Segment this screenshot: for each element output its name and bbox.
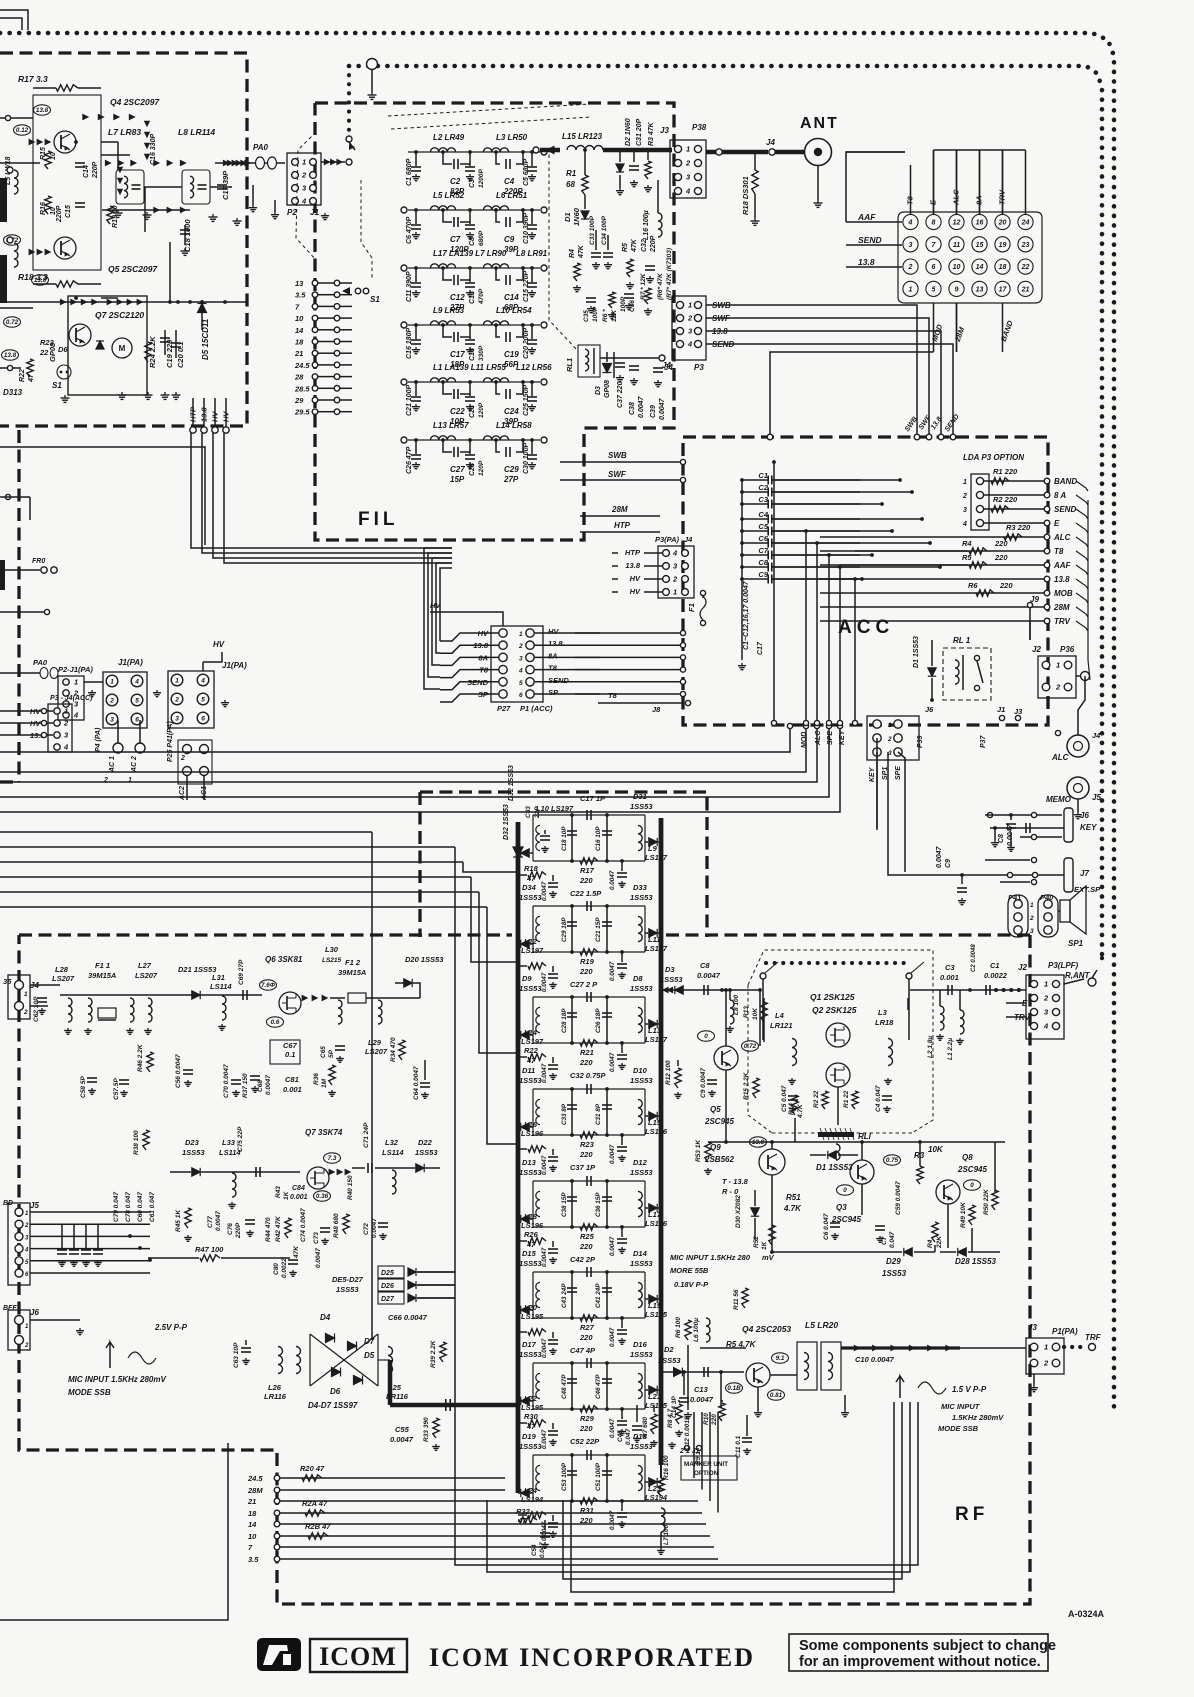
svg-text:C26 47P: C26 47P	[406, 446, 413, 474]
svg-text:C31 8P: C31 8P	[595, 1103, 602, 1125]
svg-text:LS207: LS207	[135, 971, 158, 980]
svg-text:0.1B: 0.1B	[727, 1385, 741, 1392]
svg-text:10K: 10K	[752, 1007, 759, 1020]
svg-text:R47 100: R47 100	[195, 1245, 224, 1254]
svg-text:C24: C24	[504, 407, 519, 416]
svg-text:C2 0.0048: C2 0.0048	[971, 944, 977, 972]
svg-text:47: 47	[526, 1422, 536, 1431]
svg-text:0.0047: 0.0047	[690, 1395, 714, 1404]
svg-text:Q8: Q8	[962, 1153, 973, 1162]
svg-text:1: 1	[64, 707, 68, 716]
svg-text:C8: C8	[758, 558, 768, 567]
svg-text:C58 5P: C58 5P	[80, 1076, 87, 1098]
svg-text:L27: L27	[138, 961, 152, 970]
svg-text:L10 LR54: L10 LR54	[496, 306, 532, 315]
svg-text:13.8: 13.8	[36, 107, 49, 114]
svg-text:22K: 22K	[936, 1235, 943, 1249]
svg-text:0.0047: 0.0047	[541, 1063, 548, 1083]
svg-text:SEND: SEND	[1054, 505, 1076, 514]
svg-text:1: 1	[673, 588, 677, 597]
svg-text:F1: F1	[687, 603, 696, 612]
svg-text:J5: J5	[1092, 793, 1101, 802]
svg-text:0.75: 0.75	[886, 1157, 899, 1164]
svg-text:C3: C3	[945, 963, 955, 972]
svg-text:1: 1	[302, 158, 306, 167]
svg-text:20: 20	[998, 220, 1007, 227]
svg-text:R1 220: R1 220	[993, 467, 1018, 476]
svg-text:D2 1N60: D2 1N60	[625, 118, 632, 146]
svg-text:2: 2	[24, 1223, 29, 1229]
svg-text:P3: P3	[694, 363, 704, 372]
svg-text:21: 21	[247, 1497, 256, 1506]
svg-text:L28: L28	[55, 965, 69, 974]
svg-text:C43 24P: C43 24P	[561, 1283, 568, 1308]
svg-text:E: E	[1054, 519, 1060, 528]
svg-text:D29: D29	[886, 1257, 901, 1266]
svg-text:P39: P39	[917, 735, 924, 748]
svg-text:1SS53: 1SS53	[519, 984, 542, 993]
svg-text:P38: P38	[692, 123, 707, 132]
svg-text:1: 1	[963, 479, 967, 486]
svg-text:0.0022: 0.0022	[984, 971, 1008, 980]
svg-text:L15 LR123: L15 LR123	[562, 132, 603, 141]
svg-text:Q4 2SC2053: Q4 2SC2053	[742, 1324, 791, 1334]
svg-text:D25: D25	[381, 1270, 394, 1277]
svg-text:C46 47P: C46 47P	[595, 1374, 602, 1399]
svg-text:4: 4	[518, 668, 523, 675]
svg-text:47: 47	[526, 1056, 536, 1065]
svg-text:2: 2	[518, 643, 523, 650]
svg-text:MODE SSB: MODE SSB	[938, 1424, 979, 1433]
svg-text:SEND: SEND	[858, 235, 882, 245]
svg-text:6: 6	[932, 264, 936, 271]
svg-text:R4: R4	[927, 1239, 934, 1248]
svg-text:L8 LR91: L8 LR91	[516, 249, 548, 258]
svg-text:2: 2	[887, 736, 892, 743]
svg-text:R1: R1	[566, 169, 577, 178]
svg-text:3: 3	[909, 242, 913, 249]
svg-text:LS197: LS197	[521, 946, 544, 955]
svg-text:3: 3	[686, 173, 691, 182]
svg-text:C27 2 P: C27 2 P	[570, 980, 598, 989]
svg-text:C37 1P: C37 1P	[570, 1163, 596, 1172]
svg-text:1: 1	[1044, 1343, 1048, 1352]
svg-text:D12: D12	[633, 1158, 648, 1167]
svg-text:AC 1: AC 1	[109, 756, 116, 773]
svg-text:LS207: LS207	[365, 1047, 388, 1056]
svg-text:R6 100: R6 100	[675, 1317, 682, 1338]
svg-text:C12: C12	[450, 293, 465, 302]
svg-text:3: 3	[64, 731, 69, 740]
svg-text:C6 470P: C6 470P	[406, 216, 413, 244]
svg-text:L12: L12	[524, 937, 538, 946]
svg-text:C18 10P: C18 10P	[561, 826, 568, 851]
svg-text:C1: C1	[758, 471, 768, 480]
svg-text:D1 1SS53: D1 1SS53	[816, 1163, 853, 1172]
svg-text:LS194: LS194	[521, 1495, 544, 1504]
svg-text:0.0047: 0.0047	[697, 971, 721, 980]
svg-text:D13: D13	[522, 1158, 537, 1167]
svg-text:C15: C15	[65, 205, 72, 218]
svg-text:R2A 47: R2A 47	[302, 1499, 328, 1508]
svg-text:4: 4	[687, 340, 693, 349]
svg-text:14: 14	[976, 264, 984, 271]
svg-text:MODE SSB: MODE SSB	[68, 1388, 111, 1397]
svg-text:0.0047: 0.0047	[215, 1211, 222, 1231]
svg-text:1SS53: 1SS53	[630, 984, 653, 993]
svg-text:GP08: GP08	[48, 342, 57, 362]
svg-text:(R6* 47K: (R6* 47K	[657, 272, 664, 300]
svg-text:C6 0.047: C6 0.047	[823, 1213, 830, 1240]
svg-text:L14: L14	[524, 1028, 538, 1037]
svg-text:R17 3.3: R17 3.3	[18, 74, 48, 84]
svg-text:7: 7	[248, 1543, 253, 1552]
svg-text:J5: J5	[30, 1201, 39, 1210]
svg-text:14: 14	[248, 1520, 257, 1529]
svg-text:220P: 220P	[650, 235, 657, 253]
svg-text:KEY: KEY	[1080, 823, 1097, 832]
svg-text:0.0047: 0.0047	[936, 845, 943, 868]
svg-text:D32 1SS53: D32 1SS53	[503, 804, 510, 840]
svg-text:220P: 220P	[235, 1222, 242, 1239]
svg-text:23: 23	[1021, 242, 1030, 249]
svg-text:C55: C55	[395, 1425, 410, 1434]
svg-text:D11: D11	[522, 1066, 535, 1075]
svg-text:L22: L22	[524, 1394, 538, 1403]
svg-text:LR116: LR116	[264, 1392, 287, 1401]
svg-text:R42 47K: R42 47K	[275, 1215, 282, 1242]
svg-text:4: 4	[134, 679, 139, 686]
svg-text:C39: C39	[650, 405, 657, 418]
svg-text:D313: D313	[3, 388, 23, 397]
svg-text:LS207: LS207	[52, 974, 75, 983]
svg-text:1K: 1K	[283, 1190, 290, 1200]
svg-text:D30 XZ082: D30 XZ082	[735, 1195, 742, 1228]
svg-text:330P: 330P	[478, 345, 485, 361]
svg-text:1: 1	[74, 678, 78, 687]
svg-text:P37: P37	[980, 734, 987, 748]
svg-text:D1: D1	[563, 212, 572, 222]
svg-text:D10: D10	[633, 1066, 648, 1075]
svg-text:LS196: LS196	[521, 1129, 544, 1138]
svg-text:J1(PA): J1(PA)	[118, 658, 143, 667]
svg-text:D8: D8	[633, 974, 643, 983]
svg-text:R19 10: R19 10	[112, 205, 119, 228]
svg-text:P1 (ACC): P1 (ACC)	[520, 704, 553, 713]
svg-text:1: 1	[1030, 902, 1034, 909]
svg-text:3: 3	[302, 184, 307, 193]
svg-text:Q6 3SK81: Q6 3SK81	[265, 955, 303, 964]
svg-text:L6 LR51: L6 LR51	[496, 191, 528, 200]
svg-text:A-0324A: A-0324A	[1068, 1609, 1105, 1619]
svg-text:C14: C14	[504, 293, 519, 302]
svg-text:RL1: RL1	[565, 358, 574, 372]
svg-text:C81: C81	[285, 1075, 299, 1084]
svg-text:LDA P3 OPTION: LDA P3 OPTION	[963, 453, 1024, 462]
svg-text:R1 22: R1 22	[843, 1090, 850, 1108]
svg-text:13.8: 13.8	[625, 561, 640, 570]
svg-text:C11 0.1: C11 0.1	[735, 1435, 742, 1458]
svg-text:0.0047: 0.0047	[638, 395, 645, 418]
svg-text:1SS53: 1SS53	[182, 1148, 205, 1157]
svg-text:T - 13.8: T - 13.8	[722, 1177, 749, 1186]
svg-text:0.0047: 0.0047	[609, 870, 616, 890]
svg-text:4: 4	[962, 521, 967, 528]
svg-text:L9 LR53: L9 LR53	[433, 306, 465, 315]
svg-text:C28 18P: C28 18P	[561, 1008, 568, 1033]
svg-text:5P: 5P	[328, 1049, 335, 1058]
svg-text:AC 2: AC 2	[131, 756, 138, 773]
svg-text:Q3: Q3	[836, 1203, 847, 1212]
svg-text:R12 100: R12 100	[665, 1060, 672, 1085]
svg-text:J1: J1	[310, 208, 319, 217]
svg-text:LS215: LS215	[322, 957, 342, 964]
svg-text:J4: J4	[1092, 731, 1101, 740]
svg-text:0.0047: 0.0047	[371, 1218, 378, 1238]
svg-text:F1 2: F1 2	[345, 958, 361, 967]
svg-text:C13: C13	[469, 291, 476, 304]
svg-text:LS195: LS195	[645, 1310, 668, 1319]
svg-text:R24 2.2K: R24 2.2K	[148, 336, 157, 368]
svg-text:R22: R22	[524, 1046, 539, 1055]
svg-text:D17: D17	[522, 1340, 537, 1349]
svg-text:5: 5	[25, 1260, 29, 1266]
svg-text:R53 1K: R53 1K	[695, 1139, 702, 1162]
svg-text:MOD: MOD	[930, 323, 945, 343]
svg-text:HV: HV	[630, 574, 641, 583]
svg-text:J4: J4	[766, 138, 775, 147]
svg-text:P2-J1(PA): P2-J1(PA)	[58, 665, 93, 674]
svg-text:1SS53: 1SS53	[630, 1259, 653, 1268]
svg-text:C17: C17	[450, 350, 465, 359]
svg-text:R6 *: R6 *	[602, 309, 609, 322]
svg-text:C77: C77	[207, 1216, 214, 1228]
svg-text:L33: L33	[222, 1138, 236, 1147]
svg-text:8 A: 8 A	[1054, 491, 1066, 500]
svg-text:0.0047: 0.0047	[659, 397, 666, 420]
svg-text:L3 LR50: L3 LR50	[496, 133, 528, 142]
svg-text:4: 4	[301, 197, 307, 206]
svg-text:13.8: 13.8	[4, 352, 17, 359]
svg-text:C5 0.047: C5 0.047	[781, 1085, 788, 1112]
svg-text:1SS53: 1SS53	[660, 975, 683, 984]
svg-text:R50 22K: R50 22K	[983, 1188, 990, 1215]
svg-text:4: 4	[63, 743, 69, 752]
svg-text:18: 18	[999, 264, 1007, 271]
svg-text:17: 17	[999, 287, 1008, 294]
svg-text:S1: S1	[52, 381, 62, 390]
svg-text:D3: D3	[665, 965, 675, 974]
svg-text:C2: C2	[758, 483, 768, 492]
svg-text:1SS53: 1SS53	[630, 1442, 653, 1451]
svg-text:C36 15P: C36 15P	[595, 1192, 602, 1217]
svg-text:7.6Φ: 7.6Φ	[261, 982, 276, 989]
svg-text:R2 220: R2 220	[993, 495, 1018, 504]
svg-text:J3: J3	[1014, 707, 1023, 716]
svg-text:3: 3	[110, 717, 114, 724]
svg-text:0.0047: 0.0047	[541, 972, 548, 992]
svg-text:C59 0.0047: C59 0.0047	[895, 1181, 902, 1215]
svg-text:Q7 2SC2120: Q7 2SC2120	[95, 310, 144, 320]
svg-text:C20 0.1: C20 0.1	[176, 342, 185, 368]
svg-text:1.5KHz 280mV: 1.5KHz 280mV	[952, 1413, 1004, 1422]
svg-text:L3: L3	[878, 1008, 888, 1017]
svg-text:2: 2	[174, 697, 179, 704]
svg-text:4: 4	[1043, 1022, 1049, 1031]
svg-text:Q5 2SC2097: Q5 2SC2097	[108, 264, 158, 274]
svg-text:C33 8P: C33 8P	[561, 1103, 568, 1125]
svg-text:R49 10K: R49 10K	[960, 1201, 967, 1228]
svg-text:4: 4	[685, 187, 691, 196]
svg-text:28M: 28M	[611, 505, 628, 514]
svg-text:R - 0: R - 0	[722, 1187, 739, 1196]
svg-text:R6: R6	[968, 581, 978, 590]
svg-text:FR0: FR0	[32, 558, 45, 565]
svg-text:LS195: LS195	[521, 1312, 544, 1321]
svg-text:0.72: 0.72	[744, 1043, 757, 1050]
svg-text:R16: R16	[40, 202, 47, 215]
svg-text:TRV: TRV	[1054, 617, 1071, 626]
svg-text:C34 100P: C34 100P	[601, 215, 608, 245]
svg-text:470P: 470P	[478, 288, 485, 305]
svg-text:5: 5	[201, 697, 205, 704]
svg-text:4: 4	[73, 711, 79, 720]
svg-text:28M: 28M	[1053, 603, 1070, 612]
svg-text:C11 390P: C11 390P	[406, 271, 413, 302]
svg-text:R25: R25	[580, 1232, 595, 1241]
svg-text:C56 0.0047: C56 0.0047	[175, 1054, 182, 1088]
svg-text:F1 1: F1 1	[95, 961, 110, 970]
svg-text:C4 0.047: C4 0.047	[875, 1085, 882, 1112]
svg-text:10: 10	[953, 264, 961, 271]
svg-text:C47 4P: C47 4P	[570, 1346, 596, 1355]
svg-text:D16: D16	[633, 1340, 648, 1349]
svg-text:ALC: ALC	[815, 730, 822, 746]
svg-text:C71 24P: C71 24P	[363, 1122, 370, 1148]
svg-text:HTP: HTP	[614, 521, 631, 530]
svg-text:R51: R51	[786, 1193, 801, 1202]
svg-text:2: 2	[301, 171, 307, 180]
svg-text:9: 9	[955, 287, 959, 294]
svg-text:L5 LR52: L5 LR52	[433, 191, 465, 200]
svg-text:KEY: KEY	[839, 729, 846, 745]
svg-text:SEND: SEND	[548, 676, 569, 685]
svg-text:D7: D7	[364, 1337, 375, 1346]
svg-text:PA0: PA0	[253, 143, 269, 152]
svg-text:C25 150P: C25 150P	[523, 385, 530, 416]
svg-text:C79 0.047: C79 0.047	[113, 1192, 120, 1222]
svg-text:12: 12	[953, 220, 961, 227]
svg-text:HTP: HTP	[625, 548, 641, 557]
svg-text:Q9: Q9	[710, 1143, 721, 1152]
svg-text:MIC INPUT: MIC INPUT	[941, 1402, 981, 1411]
svg-text:AAF: AAF	[1053, 561, 1072, 570]
svg-text:R23: R23	[580, 1140, 595, 1149]
svg-text:D23: D23	[185, 1138, 200, 1147]
svg-text:C66 0.0047: C66 0.0047	[388, 1313, 428, 1322]
svg-text:C9: C9	[945, 859, 952, 868]
svg-text:2: 2	[24, 1343, 29, 1349]
svg-text:C48 47P: C48 47P	[561, 1374, 568, 1399]
svg-text:P3(LPF): P3(LPF)	[1048, 961, 1079, 970]
svg-text:SWF: SWF	[608, 470, 627, 479]
svg-text:D4: D4	[320, 1313, 331, 1322]
svg-text:ALC: ALC	[1053, 533, 1071, 542]
svg-text:C5: C5	[758, 522, 768, 531]
svg-text:MIC INPUT 1.5KHz 280mV: MIC INPUT 1.5KHz 280mV	[68, 1375, 166, 1384]
svg-text:D26: D26	[381, 1283, 394, 1290]
svg-text:L2 LR49: L2 LR49	[433, 133, 465, 142]
svg-text:39M15A: 39M15A	[88, 971, 116, 980]
svg-text:C76: C76	[227, 1223, 234, 1235]
svg-text:P25 P41(PA): P25 P41(PA)	[167, 721, 174, 762]
svg-text:L15: L15	[648, 1118, 662, 1127]
svg-text:LS195: LS195	[521, 1403, 544, 1412]
svg-text:2: 2	[908, 264, 913, 271]
svg-text:LR18: LR18	[875, 1018, 894, 1027]
svg-text:1SS53: 1SS53	[519, 1350, 542, 1359]
svg-text:ALC: ALC	[1051, 753, 1069, 762]
svg-text:C8: C8	[998, 834, 1005, 843]
svg-text:1SS53: 1SS53	[658, 1356, 681, 1365]
svg-text:Q1 2SK125: Q1 2SK125	[810, 992, 855, 1002]
svg-text:C31 20P: C31 20P	[636, 118, 643, 146]
svg-text:1: 1	[909, 287, 913, 294]
svg-text:2: 2	[1043, 1359, 1049, 1368]
svg-text:C3: C3	[469, 179, 476, 188]
svg-text:FIL: FIL	[358, 509, 399, 530]
svg-text:7.3: 7.3	[328, 1155, 337, 1162]
svg-text:(R7* 47K (K7303): (R7* 47K (K7303)	[666, 248, 673, 300]
svg-text:C13: C13	[694, 1385, 709, 1394]
svg-text:2.5V P-P: 2.5V P-P	[154, 1323, 188, 1332]
svg-text:C62 10P: C62 10P	[33, 996, 40, 1022]
svg-text:C83: C83	[525, 806, 532, 818]
svg-text:S1: S1	[370, 295, 380, 304]
svg-text:0.0047: 0.0047	[609, 1327, 616, 1347]
svg-text:0: 0	[843, 1187, 847, 1194]
svg-text:C30 100P: C30 100P	[523, 443, 530, 474]
svg-text:1M: 1M	[321, 1078, 328, 1088]
svg-text:MORE 55B: MORE 55B	[670, 1266, 709, 1275]
svg-text:R18 DS301: R18 DS301	[741, 176, 750, 215]
svg-text:C26 18P: C26 18P	[595, 1008, 602, 1033]
svg-text:C4: C4	[504, 177, 515, 186]
svg-text:0.0047: 0.0047	[265, 1075, 272, 1095]
svg-text:C45: C45	[617, 1430, 624, 1442]
svg-text:C18: C18	[469, 348, 476, 361]
svg-text:1: 1	[1044, 980, 1048, 989]
svg-text:R10: R10	[703, 1413, 710, 1425]
svg-text:BAND: BAND	[1054, 477, 1077, 486]
svg-text:R32: R32	[516, 1507, 531, 1516]
svg-text:L14 LR58: L14 LR58	[496, 421, 532, 430]
svg-text:2: 2	[685, 159, 691, 168]
svg-text:47K: 47K	[293, 1245, 300, 1259]
svg-text:T8: T8	[608, 691, 618, 700]
svg-text:68: 68	[566, 180, 575, 189]
svg-text:OPTION: OPTION	[694, 1470, 719, 1477]
svg-text:R44 470: R44 470	[265, 1217, 272, 1242]
svg-text:28.5: 28.5	[294, 384, 310, 393]
svg-text:28M: 28M	[247, 1486, 263, 1495]
svg-text:1SS53: 1SS53	[519, 1442, 542, 1451]
svg-text:220: 220	[579, 1424, 593, 1433]
svg-text:220: 220	[579, 1242, 593, 1251]
svg-text:L24: L24	[524, 1486, 538, 1495]
svg-text:120P: 120P	[478, 460, 485, 476]
svg-text:C20 200P: C20 200P	[523, 328, 530, 359]
